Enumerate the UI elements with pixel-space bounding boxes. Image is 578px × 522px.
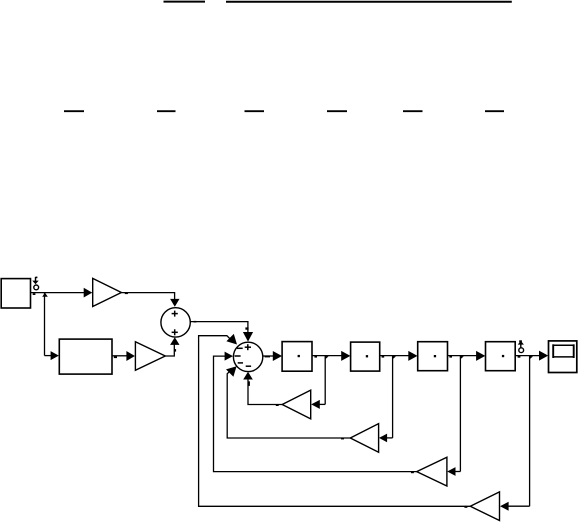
wire source to gain G1 <box>31 292 92 294</box>
wire G3 to sum S2 bottom <box>248 376 282 405</box>
arrow into sum S1 bottom <box>170 337 179 345</box>
wire G2 to sum S1 <box>165 344 174 356</box>
blank dash 4 <box>327 110 347 112</box>
wire tap3 to gain G5 <box>454 471 461 473</box>
block B2 center dot <box>366 355 368 357</box>
wire B4 to scope <box>515 355 539 357</box>
wire tap1 to gain G3 <box>319 403 326 405</box>
wire tick on riser <box>174 349 176 352</box>
wire S1 to sum S2 <box>190 322 248 333</box>
scope block <box>549 341 577 373</box>
wire G1 to sum S1 top <box>121 293 174 300</box>
junction node branch arrow <box>42 293 48 297</box>
sum S1 plus bottom <box>172 329 178 335</box>
block B1 center dot <box>298 355 300 357</box>
gain G3 <box>282 390 311 419</box>
test-point icon 1 <box>32 277 38 290</box>
wire tick after S2 <box>265 356 270 358</box>
arrow into block B1 <box>273 351 282 361</box>
feedback tap 2 vertical <box>392 356 394 438</box>
wire tick after B1 <box>314 356 317 358</box>
wire G4 to sum S2 lower-left <box>227 370 350 438</box>
feedback tap 3 vertical <box>459 356 461 472</box>
sum S2 minus lower-left <box>238 362 243 364</box>
sum S2 minus left <box>235 355 241 357</box>
arrow into block B4 <box>476 351 485 361</box>
wire S2 to block B1 <box>263 355 273 357</box>
arrow into gain G1 <box>84 288 93 298</box>
sum S1 plus top <box>172 311 178 317</box>
block B3 <box>418 342 448 371</box>
arrow into sum S2 lower-left <box>226 366 237 377</box>
arrow into gain G3 <box>311 400 320 409</box>
wire plant to gain G2 <box>112 355 127 357</box>
block B4 <box>486 342 516 371</box>
block B3 center dot <box>434 355 436 357</box>
wire tick on S1-S2 vertical <box>245 327 248 329</box>
blank dash 5 <box>403 110 423 112</box>
arrow into sum S2 top <box>243 332 253 342</box>
wire G6 to sum S2 upper-left <box>199 336 471 507</box>
arrow into block B2 <box>341 351 350 361</box>
underline short (title) <box>164 1 206 3</box>
gain G6 <box>470 492 499 521</box>
junction mark after B2 <box>393 356 396 359</box>
wire tick after S1 <box>194 321 197 323</box>
arrow into plant block <box>51 351 59 360</box>
blank dash 1 <box>64 110 84 112</box>
wire branch vertical to plant <box>44 293 46 356</box>
wire tick before G4 tip <box>341 438 344 440</box>
arrow into scope <box>539 351 548 361</box>
sum S2 minus upper-left <box>237 347 243 349</box>
gain G1 <box>93 278 122 306</box>
source block <box>1 279 30 308</box>
wire tick before G5 tip <box>411 471 414 473</box>
gain G4 <box>350 424 378 453</box>
junction mark after B3 <box>460 356 463 359</box>
arrow into gain G6 <box>500 502 509 511</box>
sum S2 plus top <box>245 344 251 350</box>
wire B1 to B2 <box>312 355 342 357</box>
wire tick after B2 <box>382 356 385 358</box>
gain G5 <box>417 457 447 486</box>
arrow into sum S2 upper-left <box>226 334 237 345</box>
blank dash 3 <box>245 110 265 112</box>
arrow into gain G5 <box>447 467 455 476</box>
block B1 <box>282 342 312 372</box>
wire tick after source <box>33 293 36 295</box>
sum S2 minus bottom <box>246 365 251 367</box>
blank dash 6 <box>485 110 504 112</box>
underline long (title) <box>226 1 512 3</box>
wire tick after plant <box>114 356 117 358</box>
test-point icon 2 <box>518 340 524 352</box>
wire B2 to B3 <box>380 355 409 357</box>
plant block (rectangle) <box>59 339 112 374</box>
arrow into block B3 <box>408 351 417 361</box>
arrow into sum S2 bottom <box>243 372 253 380</box>
arrow into sum S1 top <box>170 299 179 307</box>
blank dash 2 <box>157 110 176 112</box>
arrow into gain G4 <box>379 434 387 443</box>
junction mark after B1 <box>325 356 328 359</box>
arrow into sum S2 left <box>225 352 233 361</box>
feedback tap 1 vertical <box>324 356 326 405</box>
wire G5 to sum S2 left <box>214 356 417 472</box>
wire tick after B4 <box>518 356 521 358</box>
wire tap2 to gain G4 <box>386 437 393 439</box>
wire tick after G1 <box>125 293 128 295</box>
wire tick before G6 tip <box>464 506 467 508</box>
wire tick after B3 <box>449 356 452 358</box>
wire tick on riser 1 <box>248 381 250 386</box>
gain G2 <box>135 342 165 371</box>
wire tick before G3 tip <box>276 404 279 406</box>
arrow into gain G2 <box>126 351 134 361</box>
feedback tap 4 vertical <box>529 356 531 507</box>
sum S1 <box>161 308 190 337</box>
wire branch horizontal to plant <box>45 355 52 357</box>
block B2 <box>351 342 380 371</box>
wire B3 to B4 <box>448 355 477 357</box>
block B4 center dot <box>502 355 504 357</box>
sum S2 <box>233 342 262 371</box>
junction mark after B4 <box>530 356 533 359</box>
wire tap4 to gain G6 <box>508 505 530 507</box>
